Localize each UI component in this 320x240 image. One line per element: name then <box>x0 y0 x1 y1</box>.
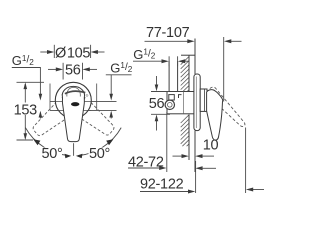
cap inner dome <box>67 87 80 96</box>
svg-text:50°: 50° <box>89 146 110 162</box>
dashed handle (open position) <box>210 87 245 126</box>
dim "42-72" <box>128 112 167 172</box>
wall hatching <box>181 57 189 147</box>
solid handle <box>207 90 223 141</box>
stub lines inside escutcheon <box>56 101 92 110</box>
svg-text:50°: 50° <box>42 146 63 162</box>
right arc <box>78 128 121 156</box>
valve body <box>167 92 194 114</box>
wall lines <box>181 39 195 173</box>
svg-text:92-122: 92-122 <box>140 177 184 193</box>
svg-text:42-72: 42-72 <box>128 155 164 171</box>
arc arrowheads at centre <box>65 154 72 159</box>
svg-text:56: 56 <box>149 96 165 112</box>
left arc <box>25 128 69 156</box>
dashed lever position left (-50deg) <box>56 83 119 141</box>
sleeve <box>200 89 207 111</box>
dim "92-122" <box>140 128 264 194</box>
dim "56" left view <box>48 63 97 80</box>
50deg swing arcs <box>25 128 121 156</box>
dim "56" (right view) <box>151 76 170 131</box>
svg-text:10: 10 <box>203 138 219 154</box>
50deg labels <box>41 148 62 160</box>
dashed cap arcs of swung lever positions <box>59 87 87 104</box>
union nut circle <box>165 100 174 109</box>
leader G1/2 left <box>12 68 41 119</box>
supply stub lines (horizontal) <box>50 84 117 111</box>
dark pill on lever <box>71 102 79 106</box>
svg-text:Ø 105: Ø 105 <box>55 45 90 61</box>
svg-text:153: 153 <box>14 102 38 118</box>
dim "O 105" <box>40 45 104 58</box>
centre tick below lever <box>73 143 75 156</box>
handle cap dome <box>62 86 84 141</box>
dim "77-107" <box>145 37 242 102</box>
arc arrowheads at dashed tips <box>33 139 40 145</box>
leader G1/2 right <box>106 75 132 119</box>
escutcheon plate (side) <box>194 74 200 131</box>
dashed lever position right (+50deg) <box>28 83 91 141</box>
escutcheon circle <box>55 82 91 118</box>
dim "153" <box>17 82 45 140</box>
svg-text:56: 56 <box>65 62 81 78</box>
dim "10" <box>173 155 215 157</box>
supply pipe (top, vertical) <box>169 61 178 91</box>
GROHE logo band on cap <box>65 91 85 94</box>
svg-text:77-107: 77-107 <box>146 25 190 41</box>
